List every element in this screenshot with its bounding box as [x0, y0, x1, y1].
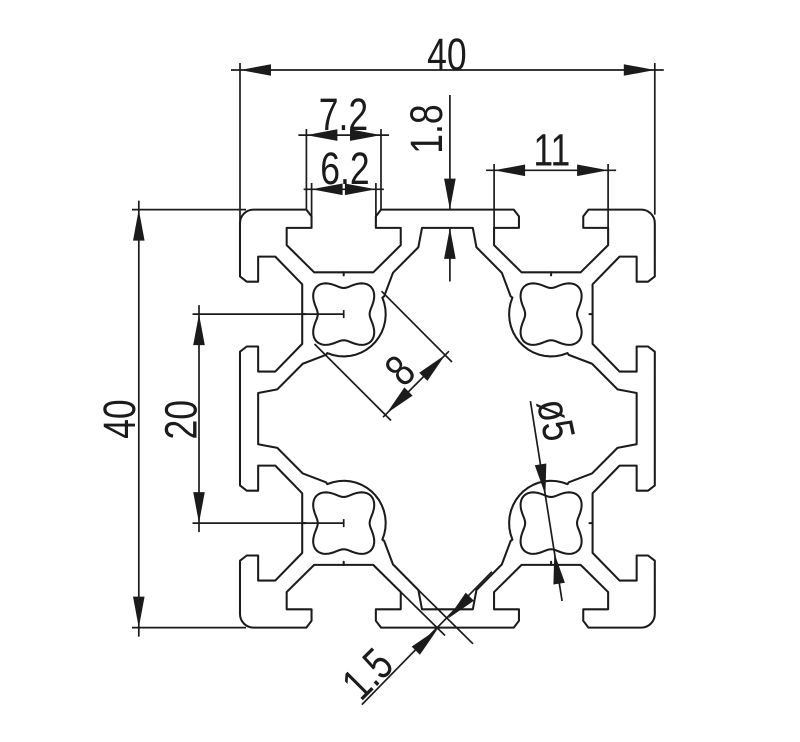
dimension 20 [198, 305, 200, 532]
dimension 11 [486, 169, 616, 171]
dimension diameter 5 [530, 401, 562, 601]
dimension 1.5 (web thickness) [362, 572, 492, 705]
svg-text:40: 40 [427, 29, 467, 80]
svg-text:20: 20 [155, 400, 206, 440]
svg-text:7.2: 7.2 [319, 89, 368, 140]
svg-text:8: 8 [375, 345, 425, 395]
svg-text:1.8: 1.8 [401, 104, 452, 153]
dimension 8 (boss diagonal) [382, 291, 453, 362]
screw boss hole top-left [313, 283, 374, 345]
central diamond cavity [258, 228, 637, 609]
dimension 6.2 [304, 188, 384, 190]
dimension 40 top [231, 69, 664, 71]
dimension 40 left [138, 201, 140, 637]
svg-text:40: 40 [94, 399, 145, 439]
screw boss hole top-right [521, 283, 582, 345]
screw boss hole bottom-right [521, 492, 582, 554]
svg-text:1.5: 1.5 [332, 638, 403, 709]
slot centre marks [343, 272, 345, 275]
dimension 7.2 [298, 134, 389, 136]
screw boss hole bottom-left [313, 492, 374, 554]
svg-text:ø5: ø5 [527, 394, 586, 445]
svg-text:6.2: 6.2 [320, 143, 369, 194]
svg-text:11: 11 [533, 125, 570, 176]
profile outer outline with 8 T-slots [240, 210, 655, 628]
dimension 1.8 [449, 95, 451, 210]
